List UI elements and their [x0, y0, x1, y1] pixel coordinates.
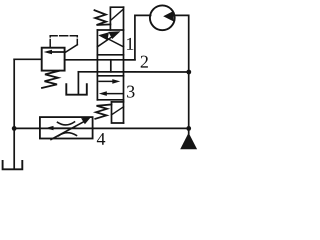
relief valve body	[42, 48, 65, 71]
X arm to upper-right with arrowhead	[97, 31, 120, 47]
label 3	[127, 86, 134, 98]
flow control adjust slash with arrowhead	[51, 117, 91, 139]
valve body right edge	[123, 7, 125, 123]
relief valve flow arrow	[44, 50, 64, 55]
flow control left arrow on through line	[45, 126, 75, 130]
spring top (left of solenoid)	[95, 10, 111, 25]
wire tank/port line y72 from tank drop to right bus	[78, 71, 188, 73]
wire left pipe to relief valve	[14, 58, 41, 60]
X arm to upper-left with arrowhead	[98, 32, 123, 47]
position box 3 bottom edge	[97, 99, 123, 101]
wire drop to tank T2	[77, 72, 79, 94]
drain triangle (to reservoir)	[180, 133, 197, 150]
flow control throttle arcs	[58, 122, 77, 136]
label 4	[97, 133, 105, 145]
solenoid box bottom	[112, 102, 124, 123]
right arrow in box 3	[99, 79, 120, 84]
wire pump right to right bus	[174, 15, 189, 133]
left arrow in box 3	[99, 91, 123, 96]
wire left vertical to tank T1	[13, 59, 15, 169]
label 2	[141, 56, 148, 68]
tank T1	[3, 161, 23, 169]
wire pump outlet left to drop	[124, 15, 151, 59]
valve body left edge	[96, 30, 98, 100]
wire bottom line	[14, 127, 189, 129]
position box 3 top edge	[97, 75, 123, 77]
relief valve spring	[42, 71, 59, 88]
wire relief supply line y59.8 (relief valve to pump drop)	[65, 59, 135, 61]
tank T2	[66, 84, 87, 95]
node J2 (right bus / bottom line)	[186, 126, 191, 131]
node J1 (right bus / valve port line)	[186, 70, 191, 75]
position box 1 bottom edge	[97, 54, 123, 56]
node J3 (left vertical / bottom line)	[12, 126, 17, 131]
position box 1 (crossed arrows) top edge	[97, 29, 123, 31]
middle box divider	[110, 60, 112, 72]
label 1	[127, 38, 133, 50]
spring bottom (left of solenoid)	[95, 105, 111, 119]
relief valve pilot line (dashed)	[50, 36, 77, 48]
solenoid box top	[110, 7, 123, 30]
pump P1	[150, 5, 175, 30]
flow control valve body	[40, 117, 93, 138]
